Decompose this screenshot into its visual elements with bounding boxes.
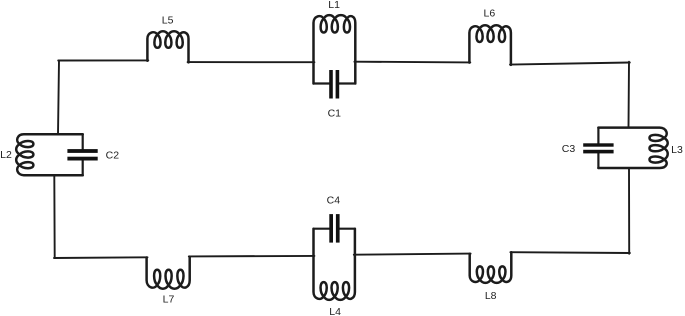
- wire top-left horizontal: [58, 59, 148, 61]
- svg-text:L3: L3: [671, 144, 683, 156]
- inductor L3 (coil and tank top/bottom edges): [598, 128, 667, 168]
- inductor L1 (coil and tank sides): [314, 15, 356, 83]
- inductor L4 (coil and tank sides): [314, 229, 355, 300]
- wire top tank bottom edge right: [339, 82, 355, 84]
- wire left vertical lower: [53, 175, 55, 258]
- capacitor C1 left plate: [329, 70, 333, 99]
- svg-text:C2: C2: [106, 150, 120, 162]
- svg-text:L7: L7: [163, 293, 175, 305]
- svg-text:C4: C4: [327, 194, 341, 206]
- capacitor C3 top plate: [583, 143, 613, 146]
- wire bottom tank top edge left: [314, 228, 330, 230]
- wire bottom-left horizontal: [54, 256, 148, 259]
- inductor L2 (coil and tank top/bottom edges): [16, 134, 83, 175]
- wire left tank right edge upper: [82, 134, 84, 149]
- wire bottom tank top edge right: [340, 228, 355, 230]
- svg-text:L1: L1: [328, 0, 340, 11]
- capacitor C2 top plate: [67, 149, 97, 153]
- wire right vertical lower: [628, 168, 630, 254]
- wire right tank left edge upper: [597, 128, 599, 144]
- wire right tank left edge lower: [597, 153, 599, 168]
- svg-text:C3: C3: [562, 143, 576, 155]
- inductor L7: [147, 257, 190, 289]
- wire right vertical upper: [628, 62, 631, 128]
- capacitor C4 right plate: [336, 214, 340, 243]
- svg-text:C1: C1: [328, 107, 342, 119]
- inductor L5: [147, 31, 188, 62]
- wire bottom-middle horizontal A: [189, 255, 315, 258]
- svg-text:L6: L6: [484, 7, 496, 19]
- svg-text:L4: L4: [329, 306, 341, 316]
- wire top tank bottom edge left: [314, 82, 330, 84]
- wire left vertical upper: [58, 61, 59, 135]
- inductor L6: [469, 25, 511, 65]
- wire bottom-middle horizontal B: [354, 254, 471, 255]
- inductor L8: [470, 252, 512, 283]
- capacitor C3 bottom plate: [583, 150, 613, 154]
- wire top-right horizontal B: [510, 63, 630, 65]
- svg-text:L8: L8: [485, 290, 497, 302]
- wire top-middle horizontal: [188, 61, 315, 63]
- svg-text:L5: L5: [162, 15, 174, 27]
- wire bottom-right horizontal: [510, 251, 630, 254]
- capacitor C1 right plate: [336, 70, 340, 99]
- wire left tank right edge lower: [82, 160, 84, 175]
- svg-text:L2: L2: [0, 149, 12, 161]
- capacitor C2 bottom plate: [67, 157, 97, 161]
- wire top-right horizontal A: [354, 61, 470, 64]
- capacitor C4 left plate: [329, 214, 333, 243]
